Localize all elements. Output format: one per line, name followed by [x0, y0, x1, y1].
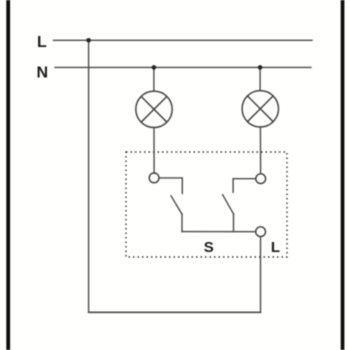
- wire: lamp E1 to switch terminal: [153, 128, 155, 173]
- net N wire: [55, 66, 311, 68]
- terminal T1 (left pole input): [149, 173, 159, 183]
- switch pole a: lever to common: [181, 214, 183, 232]
- terminal L (common): [256, 227, 266, 237]
- wire: N to lamp E1: [153, 67, 155, 91]
- wire: N to lamp E2: [259, 67, 261, 90]
- switch pole b: fixed contact stub: [233, 179, 256, 193]
- switch enclosure S (dotted box): [126, 152, 287, 257]
- lamp E1: [136, 91, 172, 127]
- wire: L feed drop (left side): [88, 40, 90, 312]
- wire: common run to terminal L: [182, 231, 256, 233]
- wire: lamp E2 to switch terminal: [259, 127, 261, 174]
- switch pole b: lever: [223, 195, 234, 214]
- terminal T2 (right pole input): [256, 174, 266, 184]
- junction: L feed on net L: [86, 38, 91, 43]
- wire: riser to switch common terminal: [260, 237, 262, 312]
- svg-text:L: L: [271, 239, 280, 256]
- svg-text:N: N: [37, 64, 49, 81]
- lamp E2: [242, 91, 278, 127]
- switch pole a: lever: [171, 196, 182, 214]
- junction: lamp E2 on net N: [258, 65, 263, 70]
- net L wire: [54, 39, 313, 41]
- svg-text:L: L: [37, 34, 47, 51]
- wire: bottom run: [89, 311, 261, 313]
- switch pole b: lever to common: [233, 214, 235, 232]
- switch pole a: fixed contact stub: [159, 178, 182, 194]
- svg-text:S: S: [204, 239, 214, 256]
- junction: lamp E1 on net N: [152, 65, 157, 70]
